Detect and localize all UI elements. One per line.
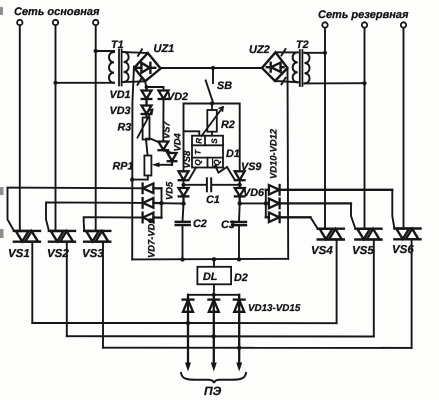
arrow out 3 [236, 363, 242, 372]
wire VD13-15 top bus [188, 294, 239, 296]
wire N2 to VD10 bus [240, 202, 266, 204]
svg-text:C3: C3 [221, 219, 235, 231]
wire VS3 out [102, 242, 104, 348]
svg-text:Сеть резервная: Сеть резервная [318, 9, 409, 21]
wire VD10-VD12 anode bus [265, 190, 267, 218]
node diode bus center [212, 293, 216, 297]
wire mains-R phase3 [403, 29, 405, 229]
triac VS2 [49, 231, 75, 242]
wire DL bus to DL box [213, 259, 215, 267]
diode VD9 [143, 213, 162, 223]
arrow out 1 [185, 363, 191, 372]
terminal main L1 [17, 20, 22, 25]
svg-text:SB: SB [217, 80, 232, 92]
svg-text:VD1: VD1 [110, 89, 131, 101]
svg-text:D2: D2 [234, 272, 248, 284]
node DL box on DL bus [212, 257, 216, 261]
gate row 3 to VS3 [84, 217, 143, 231]
wire mains-L phase2 [55, 26, 57, 231]
svg-text:VD3: VD3 [110, 105, 131, 117]
wire R input of D1 from left branch [184, 131, 200, 135]
svg-text:VS9: VS9 [241, 161, 261, 173]
svg-text:UZ2: UZ2 [249, 44, 270, 56]
terminal reserve L3 [401, 22, 406, 27]
node SB/R2 branch [210, 101, 214, 105]
wire mains-R phase2 [364, 29, 366, 229]
switch SB [212, 68, 214, 83]
wire VS4 out [336, 240, 338, 324]
svg-text:C1: C1 [206, 194, 220, 206]
potentiometer RP1 [144, 156, 151, 176]
svg-text:VD4: VD4 [172, 132, 183, 151]
diode VD11 [266, 199, 351, 209]
wire branch right to VS9 anode [212, 104, 240, 172]
capacitor C3 [232, 222, 246, 225]
wire N2 to C3 [238, 203, 241, 222]
transformer T1 secondary winding [124, 52, 129, 82]
triac VS3 [84, 231, 110, 242]
wire bottom bus 1 [32, 322, 336, 324]
svg-text:VS5: VS5 [352, 245, 374, 257]
wire T1 primary top lead [96, 51, 114, 52]
svg-text:ПЭ: ПЭ [204, 384, 222, 398]
svg-text:VS8: VS8 [181, 150, 192, 169]
capacitor C1 [184, 178, 240, 191]
block DL box [197, 267, 231, 285]
wire VS1 out [31, 242, 33, 323]
svg-text:T: T [194, 149, 203, 155]
wire UZ1 bottom to VD1/VD2 [145, 81, 146, 87]
node T1 primary top [94, 49, 98, 53]
node T2 primary top [323, 51, 327, 55]
trigger D1 box [192, 136, 223, 168]
diode VD12 [266, 213, 311, 223]
diode VD14 [208, 295, 219, 365]
svg-text:UZ1: UZ1 [154, 43, 175, 55]
svg-text:VD5: VD5 [164, 181, 175, 200]
transformer T2 primary winding [305, 53, 310, 84]
terminal main L3 [93, 20, 98, 25]
gate row 1 to VS1 [8, 188, 143, 231]
resistor R3 (rheostat) [138, 110, 153, 140]
node SB tap [211, 66, 215, 70]
wire VS4 gate [311, 217, 318, 228]
wire C3 to DL bus [238, 225, 240, 259]
gate row 2 to VS2 [46, 202, 143, 230]
transformer T2 secondary winding [293, 52, 298, 82]
triac VS4 [318, 229, 344, 240]
svg-text:T2: T2 [296, 39, 309, 51]
scan smudges [0, 7, 4, 238]
wire T1 secondary top lead to UZ1 [124, 52, 148, 53]
diode VD15 [234, 295, 245, 365]
wire DL common bus [132, 258, 288, 261]
terminal reserve L2 [362, 22, 367, 27]
diode VD3 [142, 99, 152, 118]
wire mains-L phase3 [95, 26, 97, 231]
wire VS6 gate [392, 190, 394, 229]
node N2 bus join [264, 201, 268, 205]
diode VD6 [235, 188, 245, 203]
wire mains-R phase1 [324, 29, 326, 229]
RP1 wiper arrow [159, 164, 173, 166]
triac VS5 [355, 229, 381, 240]
svg-text:Q: Q [193, 159, 202, 166]
diode VD7 [143, 184, 162, 194]
AC tick UZ1 top [138, 49, 142, 56]
wire VD2 to VS7 [162, 99, 164, 142]
thyristor VS8 [179, 171, 189, 180]
svg-text:VS7: VS7 [161, 120, 172, 139]
wire VS7 to VD4 jog [163, 150, 172, 153]
wire VS5 out [373, 240, 375, 337]
node C1 right tap [238, 183, 242, 187]
diode VD8 [143, 198, 162, 208]
svg-text:VS3: VS3 [82, 248, 104, 260]
svg-text:Сеть основная: Сеть основная [14, 6, 100, 18]
wire VS8 cathode chain [183, 180, 185, 188]
svg-text:R: R [195, 138, 204, 144]
svg-text:C2: C2 [193, 218, 207, 230]
wire R3 to RP1 [146, 140, 148, 156]
diode VD4 [168, 153, 177, 165]
wire D1 Q output to VS8 gate [189, 168, 196, 181]
thyristor VS9 [235, 171, 245, 180]
wire bottom bus 3 [103, 347, 412, 349]
svg-text:VS4: VS4 [311, 245, 333, 257]
svg-text:R2: R2 [221, 119, 235, 131]
wire D1 Qbar output to VS9 gate [216, 167, 235, 180]
svg-text:VD6: VD6 [243, 187, 265, 199]
wire branch left to VS8 anode [184, 104, 213, 172]
wire DL box to diode bus [213, 284, 215, 295]
svg-text:VD10-VD12: VD10-VD12 [268, 128, 279, 179]
svg-text:VS1: VS1 [8, 248, 30, 260]
wire VS6 out [411, 239, 413, 348]
svg-text:D1: D1 [226, 148, 240, 160]
svg-text:VD7-VD9: VD7-VD9 [146, 218, 157, 258]
svg-text:DL: DL [203, 271, 217, 283]
node N1 [181, 201, 185, 205]
wire UZ2 top lead to T2 [276, 51, 298, 53]
transformer T1 core [119, 50, 122, 86]
diode VD1 [142, 87, 152, 99]
wire VS9 cathode chain [239, 180, 241, 188]
diode VD5 [179, 188, 189, 204]
svg-text:RP1: RP1 [113, 161, 134, 173]
node N1 bus join [159, 201, 163, 205]
triac VS1 [14, 231, 40, 242]
wire RP1 bottom to minus line [132, 176, 148, 180]
node RP1 bottom on minus line [130, 177, 134, 181]
diode VD2 [159, 91, 169, 100]
thyristor VS7 [158, 142, 168, 151]
wire T2 primary bottom lead [305, 82, 365, 84]
transformer T2 core [300, 50, 303, 86]
svg-text:VD2: VD2 [167, 91, 188, 103]
capacitor C2 [176, 222, 190, 225]
wire T2 primary top lead [305, 52, 326, 54]
AC tick UZ2 bottom [282, 78, 286, 85]
node N2 [238, 201, 242, 205]
wire UZ2 minus vertical [287, 68, 290, 259]
terminal main L2 [53, 20, 58, 25]
transformer T1 primary winding [109, 52, 114, 83]
wire VD7-VD9 anode bus [161, 188, 163, 217]
node T2 primary bottom [362, 81, 366, 85]
wire N1 to VD8 bus [162, 202, 184, 204]
svg-text:VD13-VD15: VD13-VD15 [248, 303, 301, 314]
node bus3/VD15 [237, 346, 241, 350]
brace under arrows [181, 373, 246, 383]
wire bottom bus 2 [67, 335, 374, 337]
svg-text:S: S [210, 138, 219, 144]
node C1 left tap [181, 183, 185, 187]
wire T1 secondary bottom lead to UZ1 [124, 80, 146, 83]
wire UZ1 minus vertical [132, 67, 134, 260]
wire mains-L phase1 [19, 26, 21, 231]
diode VD13 [183, 295, 194, 365]
triac VS6 [394, 229, 420, 240]
node bus2/VD14 [211, 334, 215, 338]
AC tick UZ2 top [282, 49, 286, 56]
node VD1/VD2 split [145, 85, 149, 89]
arrow out 2 [211, 363, 217, 372]
node T1 primary bottom [53, 81, 57, 85]
terminal reserve L1 [322, 22, 327, 27]
wire N1 to C2 [183, 204, 184, 222]
wire T1 primary bottom lead [56, 82, 115, 84]
rectifier bridge UZ1 [134, 53, 160, 81]
node C2 on DL bus [180, 257, 184, 261]
svg-text:T1: T1 [111, 39, 124, 51]
wire VD2 branch top [147, 87, 164, 91]
AC tick UZ1 bottom [138, 78, 142, 85]
wire UZ1 plus bus to UZ2 [160, 67, 262, 69]
wire VS7 gate from R3 bottom [146, 139, 158, 142]
node bus1/VD13 [186, 321, 190, 325]
wire VS5 gate [351, 203, 355, 228]
wire UZ2 bottom lead to T2 [275, 81, 298, 82]
resistor R2 (variable) [202, 104, 224, 137]
wire C2 to DL bus [182, 225, 184, 260]
node C3 on DL bus [237, 257, 241, 261]
arrow on output [211, 164, 219, 169]
rectifier bridge UZ2 [262, 52, 288, 81]
svg-text:R3: R3 [118, 122, 132, 134]
wire VS2 out [66, 242, 68, 337]
diode VD10 [266, 185, 393, 195]
